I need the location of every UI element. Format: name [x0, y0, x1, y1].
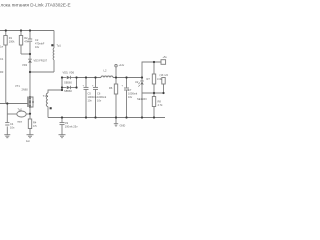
svg-text:1000mk: 1000mk [97, 95, 107, 99]
svg-text:2N60: 2N60 [22, 88, 29, 92]
svg-text:0.5: 0.5 [33, 124, 37, 128]
ground left [4, 134, 10, 136]
regulator U2 branch [141, 78, 143, 81]
capacitor C7 [126, 78, 128, 88]
svg-text:R6: R6 [109, 86, 113, 90]
polarity dot T1 primary [51, 44, 53, 46]
node dot VD6 right [75, 86, 77, 88]
wire secondary top lead [48, 78, 62, 94]
svg-text:Т1.2: Т1.2 [43, 94, 49, 98]
svg-text:SE110N: SE110N [137, 97, 147, 101]
node dot U2 bottom [141, 116, 143, 118]
svg-text:R1: R1 [9, 36, 13, 40]
svg-text:16v: 16v [35, 45, 40, 49]
svg-text:C5: C5 [88, 92, 92, 96]
svg-text:10v: 10v [97, 99, 102, 103]
capacitor C6 [95, 78, 97, 88]
svg-text:1w: 1w [0, 46, 3, 49]
svg-text:R8: R8 [158, 100, 162, 104]
svg-text:VD3: VD3 [22, 63, 28, 67]
svg-text:вых: вых [18, 121, 23, 124]
GND stub [115, 118, 117, 124]
node dot 12V [115, 76, 117, 78]
svg-text:U2: U2 [135, 80, 139, 84]
resistor R2 [20, 31, 22, 36]
terminal +5V [161, 60, 166, 65]
node dot rail-C2 [29, 29, 31, 31]
node dot drain link [29, 71, 31, 73]
node dot source [29, 113, 31, 115]
svg-text:470mkF: 470mkF [35, 42, 45, 46]
svg-text:+5v: +5v [163, 55, 168, 59]
wire divider mid [142, 92, 164, 94]
svg-text:R3: R3 [0, 70, 4, 74]
node dot U2 top [141, 76, 143, 78]
svg-text:+12v: +12v [119, 63, 125, 67]
svg-text:C9: C9 [65, 121, 69, 125]
inductor L2 [101, 76, 113, 78]
svg-text:47k: 47k [24, 40, 29, 44]
svg-text:SB560: SB560 [64, 89, 72, 93]
capacitor C4 [5, 122, 9, 124]
capacitor C2 [28, 38, 32, 40]
wire secondary bottom lead [47, 107, 49, 118]
wire left vertical [5, 31, 7, 104]
resistor R4 source [29, 114, 31, 120]
svg-text:R7: R7 [147, 77, 151, 81]
transformer T1 primary winding [52, 48, 55, 60]
node dot R9 mid [162, 92, 164, 94]
svg-text:1000mk: 1000mk [128, 92, 138, 96]
ferrite bead L3 [17, 111, 26, 117]
node dot rail-R2 [20, 29, 22, 31]
resistor R9 adjust [162, 78, 165, 85]
node dot C5 top [85, 76, 87, 78]
capacitor C5 [85, 78, 87, 88]
node dot divider mid [153, 92, 155, 94]
capacitor C9 [61, 118, 63, 123]
svg-text:C4: C4 [10, 122, 14, 126]
svg-text:1000mk: 1000mk [88, 95, 98, 99]
node dot C9 [61, 116, 63, 118]
wire gate [0, 103, 28, 105]
wire diode nodes [61, 78, 63, 91]
ground source [27, 134, 34, 136]
node dot C6 bottom [94, 116, 96, 118]
node dot +5V R7 [153, 61, 155, 63]
svg-text:R4: R4 [33, 121, 37, 125]
wire primary vertical [53, 31, 55, 49]
wire bottom rail [48, 117, 165, 119]
svg-text:Тр2: Тр2 [18, 108, 23, 112]
svg-text:SB560: SB560 [64, 81, 72, 85]
wire top rail [0, 30, 54, 32]
wire primary to drain [30, 71, 54, 73]
node dot VD6 left [61, 86, 63, 88]
wire snubber vertical [29, 31, 31, 39]
node dot sec top [61, 89, 63, 91]
svg-text:VD3 FR107: VD3 FR107 [34, 59, 48, 63]
svg-text:C1: C1 [0, 57, 4, 61]
diode VD6 branch [62, 87, 67, 89]
wire R2 to clamp node [21, 53, 30, 55]
node dot VD5 left [61, 76, 63, 78]
svg-text:3.3k: 3.3k [157, 77, 163, 81]
node dot C6 top [94, 76, 96, 78]
node dot C7 bottom [125, 116, 127, 118]
node dot C7 top [125, 76, 127, 78]
svg-text:Тр1: Тр1 [57, 44, 62, 48]
node dot rail-R1 [5, 29, 7, 31]
resistor R8 divider bottom [152, 97, 155, 107]
ground secondary [59, 134, 66, 136]
wire left lower vertical [6, 104, 8, 123]
resistor R7 divider top [153, 62, 155, 74]
svg-text:C2: C2 [35, 38, 39, 42]
svg-text:лока питания D-Link JTA0302E-E: лока питания D-Link JTA0302E-E [1, 3, 71, 8]
svg-text:4.7k: 4.7k [158, 103, 164, 107]
svg-text:C6: C6 [97, 92, 101, 96]
resistor R1 [4, 36, 7, 46]
svg-text:100k: 100k [9, 40, 15, 44]
svg-text:16v: 16v [128, 95, 133, 99]
diode VD3 [28, 59, 32, 62]
terminal +12V [115, 67, 117, 78]
svg-text:C7: C7 [128, 88, 132, 92]
node dot gate-left [6, 102, 8, 104]
svg-text:VT1: VT1 [15, 84, 20, 88]
resistor R6 bleeder [114, 84, 117, 94]
svg-text:GND: GND [120, 124, 126, 128]
svg-text:10n: 10n [10, 126, 15, 130]
node dot VD5 right [75, 76, 77, 78]
transistor VT1 [27, 97, 29, 108]
svg-text:100mk 25v: 100mk 25v [65, 125, 78, 129]
diode VD5 branch [62, 77, 67, 79]
wire feedback (bead) [7, 113, 16, 115]
svg-text:R2: R2 [24, 36, 28, 40]
svg-text:10v: 10v [88, 99, 93, 103]
wire +5V line [142, 62, 161, 78]
node dot C5 bottom [85, 116, 87, 118]
node dot clamp [29, 53, 31, 55]
svg-text:VD5, VD6: VD5, VD6 [63, 71, 75, 75]
node dot GND stub [115, 116, 117, 118]
node dot R8 bottom [153, 116, 155, 118]
polarity dot T1 secondary [50, 107, 52, 109]
svg-text:(1K 1/4: (1K 1/4 [160, 73, 169, 77]
transformer T1 secondary winding [46, 93, 48, 107]
wire output rail [77, 77, 102, 79]
